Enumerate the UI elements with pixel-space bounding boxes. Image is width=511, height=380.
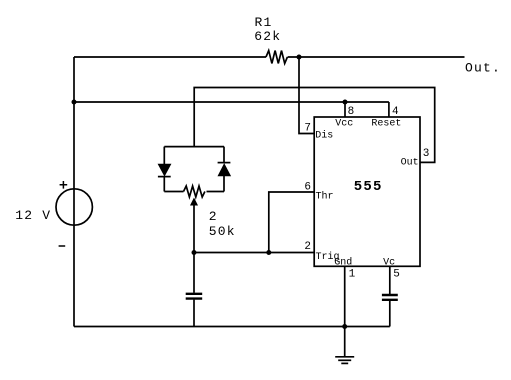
svg-text:Vc: Vc xyxy=(383,257,395,268)
wire: bottom ground rail xyxy=(74,326,390,328)
potentiometer wiper arrowhead xyxy=(191,199,197,205)
voltage source V1 circle xyxy=(56,189,92,225)
svg-text:6: 6 xyxy=(304,182,311,194)
node: junction left rail / Vcc rail xyxy=(72,100,77,105)
svg-text:2: 2 xyxy=(209,209,218,224)
voltage source V1 minus sign xyxy=(59,245,66,247)
svg-text:555: 555 xyxy=(354,179,383,195)
potentiometer R2 left lead xyxy=(164,191,183,193)
node: junction Trig net / Thr branch xyxy=(266,250,271,255)
svg-text:Dis: Dis xyxy=(315,130,333,142)
svg-text:5: 5 xyxy=(393,268,400,280)
node: junction wiper / Trig / C1 xyxy=(192,250,197,255)
potentiometer R2 right lead xyxy=(207,191,225,193)
wire: pin 4 stub xyxy=(388,102,390,117)
svg-text:Out.: Out. xyxy=(465,60,501,75)
potentiometer R2 resistor body xyxy=(184,186,205,197)
potentiometer wiper wire xyxy=(193,204,195,253)
svg-text:Reset: Reset xyxy=(371,119,401,130)
capacitor C2 top lead from pin 5 xyxy=(389,266,391,294)
wire: V+ top rail from left rail to R1 xyxy=(74,56,266,58)
capacitor C2 bottom lead xyxy=(389,301,391,327)
svg-text:62k: 62k xyxy=(254,29,281,44)
svg-text:2: 2 xyxy=(304,241,311,253)
wire: R1 right to Out. terminal xyxy=(288,56,465,58)
svg-text:7: 7 xyxy=(304,123,311,135)
ground symbol xyxy=(344,327,346,357)
capacitor C1 bottom lead xyxy=(193,300,195,327)
wire: Vcc rail to pin 8 and pin 4 xyxy=(74,101,389,103)
svg-text:12 V: 12 V xyxy=(15,208,51,223)
voltage source V1 plus sign xyxy=(60,181,68,189)
svg-text:Out: Out xyxy=(401,158,419,169)
svg-text:3: 3 xyxy=(423,148,430,160)
svg-text:Thr: Thr xyxy=(316,190,334,202)
node: junction Vcc rail / pin 8 xyxy=(343,100,348,105)
wire: output node down to Dis pin 7 xyxy=(299,57,314,134)
wire: diode network top rail xyxy=(164,146,224,148)
capacitor C1 top lead xyxy=(193,253,195,293)
node: output junction at R1 xyxy=(297,55,302,60)
capacitor C2 plates xyxy=(382,294,398,296)
wire: left supply rail (V1 branch) xyxy=(73,57,75,327)
wire: pin 3 Out up and over to diode network top xyxy=(194,88,435,163)
node: junction ground rail / pin 1 / ground xyxy=(342,324,347,329)
svg-text:8: 8 xyxy=(348,106,355,118)
wire: pin 8 stub xyxy=(344,102,346,117)
diode D1 (left, anode up) xyxy=(163,147,165,165)
svg-text:4: 4 xyxy=(392,106,399,118)
wire: Thr branch up from trig net to pin 6 xyxy=(269,192,314,253)
wire: pin 1 Gnd down to ground rail xyxy=(344,266,346,326)
svg-text:R1: R1 xyxy=(255,15,273,30)
svg-text:Vcc: Vcc xyxy=(335,119,353,130)
capacitor C1 plates xyxy=(186,293,203,295)
diode D2 (right, cathode up) xyxy=(223,147,225,164)
svg-text:Gnd: Gnd xyxy=(334,256,352,268)
wire: Trig net from wiper node to pin 2 xyxy=(194,252,314,254)
svg-text:1: 1 xyxy=(349,268,356,280)
svg-text:50k: 50k xyxy=(209,224,236,239)
resistor R1 xyxy=(266,51,287,64)
IC U1 555 body xyxy=(314,117,420,266)
